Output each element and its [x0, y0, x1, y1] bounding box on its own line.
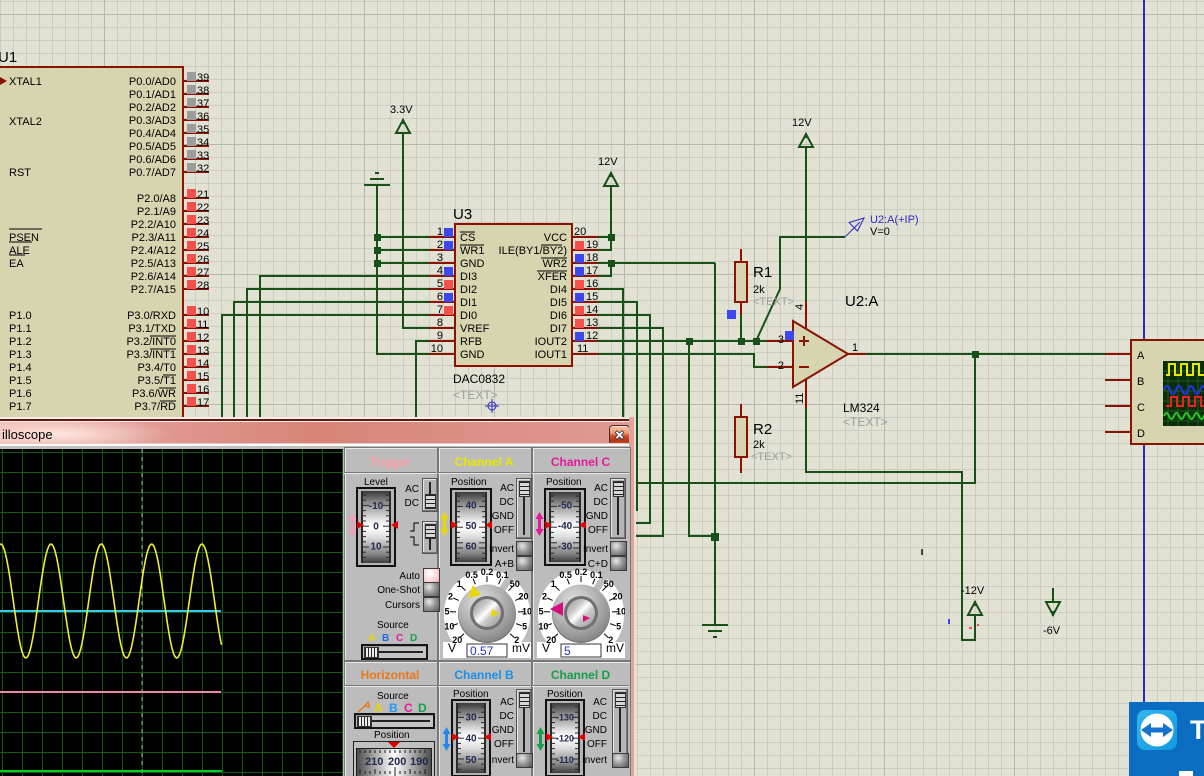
svg-text:21: 21 — [197, 189, 209, 201]
svg-text:12V: 12V — [598, 156, 618, 168]
svg-text:U2:A(+IP): U2:A(+IP) — [870, 214, 919, 226]
resistor R2 — [735, 404, 747, 473]
R1 pin state square — [727, 310, 736, 319]
svg-text:GND: GND — [460, 349, 485, 361]
svg-text:0.2: 0.2 — [481, 568, 494, 577]
svg-text:DI2: DI2 — [460, 284, 477, 296]
svg-text:P1.4: P1.4 — [9, 362, 32, 374]
junction VCC — [608, 234, 615, 241]
svg-text:ILE(BY1/BY2): ILE(BY1/BY2) — [499, 245, 567, 257]
svg-text:11: 11 — [197, 319, 208, 331]
svg-text:18: 18 — [586, 252, 598, 264]
svg-text:VCC: VCC — [544, 232, 567, 244]
wire 12V to VCC/ILE — [598, 186, 611, 250]
svg-text:P2.1/A9: P2.1/A9 — [137, 206, 176, 218]
power 12V (op-amp) — [799, 133, 813, 147]
svg-text:U2:A: U2:A — [845, 293, 878, 310]
overline EA — [9, 254, 25, 256]
junction CS — [374, 234, 381, 241]
stray mark tick — [921, 549, 923, 555]
svg-text:50: 50 — [510, 579, 520, 589]
overline RD — [160, 400, 176, 402]
channel D trace (green) — [0, 770, 222, 772]
svg-text:P3.2/INT0: P3.2/INT0 — [126, 336, 176, 348]
trigger dashed cursor — [141, 449, 143, 776]
svg-text:DI4: DI4 — [550, 284, 567, 296]
titlebar bottom line — [0, 443, 629, 444]
svg-text:U3: U3 — [453, 206, 472, 223]
svg-text:4: 4 — [437, 265, 443, 277]
svg-text:2: 2 — [778, 360, 784, 372]
overline BY2 — [541, 244, 562, 246]
svg-text:P2.3/A11: P2.3/A11 — [132, 232, 176, 244]
wire opamp output feedback down-left — [633, 354, 975, 483]
svg-text:2: 2 — [437, 239, 443, 251]
wire P3 bus DI0 vertical — [222, 315, 429, 422]
svg-text:mV: mV — [512, 641, 530, 655]
svg-text:14: 14 — [586, 304, 598, 316]
junction GND3 — [374, 260, 381, 267]
junction probe — [753, 338, 760, 345]
svg-text:5: 5 — [564, 644, 571, 658]
svg-text:23: 23 — [197, 215, 209, 227]
op-amp minus sign — [799, 366, 809, 368]
origin marker — [485, 399, 499, 413]
panel area — [343, 446, 631, 776]
svg-text:WR2: WR2 — [543, 258, 567, 270]
svg-text:DI3: DI3 — [460, 271, 477, 283]
svg-text:P2.5/A13: P2.5/A13 — [131, 258, 176, 270]
U1 clock arrow XTAL1 — [0, 77, 7, 85]
close button — [609, 425, 630, 445]
wire ground to CS/WR1/GND — [377, 186, 429, 354]
mini trace red square — [1166, 397, 1204, 406]
svg-text:P3.0/RXD: P3.0/RXD — [127, 310, 176, 322]
svg-text:10: 10 — [431, 343, 443, 355]
svg-text:P2.7/A15: P2.7/A15 — [131, 284, 176, 296]
svg-text:9: 9 — [437, 330, 443, 342]
svg-text:15: 15 — [197, 371, 209, 383]
svg-text:LM324: LM324 — [843, 401, 880, 415]
U3 left pin names — [460, 232, 490, 361]
svg-text:P1.0: P1.0 — [9, 310, 32, 322]
svg-text:GND: GND — [460, 258, 485, 270]
svg-text:DI6: DI6 — [550, 310, 567, 322]
stray mark red1 — [969, 627, 972, 629]
svg-text:XTAL1: XTAL1 — [9, 76, 42, 88]
svg-text:10: 10 — [522, 607, 531, 617]
svg-text:P2.4/A12: P2.4/A12 — [131, 245, 176, 257]
svg-text:P0.6/AD6: P0.6/AD6 — [129, 154, 176, 166]
U3 right pin numbers — [574, 226, 598, 355]
svg-text:3: 3 — [437, 252, 443, 264]
svg-text:P0.4/AD4: P0.4/AD4 — [129, 128, 176, 140]
svg-text:mV: mV — [606, 641, 624, 655]
junction IOUT2-gnd — [686, 338, 693, 345]
svg-text:190: 190 — [410, 756, 428, 768]
svg-text:16: 16 — [197, 384, 209, 396]
svg-text:28: 28 — [197, 280, 209, 292]
wire opamp output to scope A — [866, 353, 1105, 355]
svg-text:12: 12 — [197, 332, 209, 344]
overline WR — [159, 387, 176, 389]
svg-text:RST: RST — [9, 167, 31, 179]
svg-text:P2.2/A10: P2.2/A10 — [131, 219, 176, 231]
svg-text:10: 10 — [370, 542, 382, 553]
wire WR1 pin2 — [377, 249, 429, 251]
svg-text:IOUT2: IOUT2 — [535, 336, 567, 348]
svg-text:0.2: 0.2 — [575, 568, 588, 577]
U1 pin state squares P0 (gray) — [187, 72, 196, 172]
svg-text:DI7: DI7 — [550, 323, 567, 335]
svg-text:P0.7/AD7: P0.7/AD7 — [129, 167, 176, 179]
scope pin stubs A-D — [1105, 354, 1131, 432]
svg-text:0.1: 0.1 — [496, 570, 509, 580]
wire probe diagonal — [756, 237, 845, 341]
chip U1 body — [0, 67, 183, 427]
section frames — [344, 447, 438, 661]
svg-text:VREF: VREF — [460, 323, 490, 335]
svg-text:P2.6/A14: P2.6/A14 — [131, 271, 176, 283]
svg-text:<TEXT>: <TEXT> — [453, 388, 498, 402]
svg-text:16: 16 — [586, 278, 598, 290]
svg-text:4: 4 — [794, 304, 806, 310]
wire IOUT1 to opamp inverting — [598, 354, 767, 367]
chip U3 body — [455, 224, 572, 366]
svg-text:38: 38 — [197, 85, 209, 97]
svg-text:8: 8 — [437, 317, 443, 329]
svg-text:P3.5/T1: P3.5/T1 — [137, 375, 176, 387]
svg-text:P3.4/T0: P3.4/T0 — [137, 362, 176, 374]
overline INT0 — [150, 335, 176, 337]
svg-text:11: 11 — [794, 393, 806, 404]
U3 left pin numbers — [431, 226, 443, 355]
svg-text:2: 2 — [448, 592, 453, 602]
U3 pin state squares — [444, 228, 584, 341]
channel A trace (yellow sine) — [0, 544, 222, 658]
svg-text:P1.7: P1.7 — [9, 401, 32, 413]
svg-text:5: 5 — [522, 622, 527, 632]
wire P3 bus DI1 vertical — [234, 302, 429, 422]
svg-text:<TEXT>: <TEXT> — [753, 296, 794, 308]
junction WR2 — [608, 260, 615, 267]
svg-text:17: 17 — [197, 397, 209, 409]
svg-text:22: 22 — [197, 202, 209, 214]
svg-text:<TEXT>: <TEXT> — [751, 451, 792, 463]
svg-text:17: 17 — [586, 265, 598, 277]
svg-text:32: 32 — [197, 163, 209, 175]
overline T1 — [163, 374, 176, 376]
window top glow — [0, 417, 636, 419]
svg-text:27: 27 — [197, 267, 209, 279]
U1 pin state squares P2,P3 (red) — [187, 189, 196, 406]
svg-text:R2: R2 — [753, 421, 772, 438]
svg-text:P1.5: P1.5 — [9, 375, 32, 387]
U1 pin numbers — [197, 72, 209, 409]
junction output — [972, 351, 979, 358]
svg-text:5: 5 — [444, 607, 449, 617]
mini trace green sine — [1164, 413, 1204, 419]
svg-text:DI0: DI0 — [460, 310, 477, 322]
knob C — [537, 568, 625, 658]
svg-text:3.3V: 3.3V — [390, 104, 413, 116]
junction WR1 — [374, 247, 381, 254]
wire DI7 staircase — [598, 328, 663, 536]
wire DI5 staircase — [598, 302, 637, 510]
svg-text:20: 20 — [574, 226, 586, 238]
op-amp plus sign — [799, 336, 809, 367]
svg-text:2k: 2k — [753, 439, 765, 451]
svg-text:P0.0/AD0: P0.0/AD0 — [129, 76, 176, 88]
svg-text:-12V: -12V — [961, 585, 985, 597]
scope component body — [1131, 340, 1204, 444]
svg-text:15: 15 — [586, 291, 598, 303]
stray mark red2 — [977, 624, 979, 626]
svg-text:37: 37 — [197, 98, 209, 110]
svg-text:10: 10 — [197, 306, 209, 318]
svg-text:10: 10 — [616, 607, 625, 617]
knob A — [443, 568, 531, 658]
power 12V (U3) — [604, 172, 618, 186]
svg-text:V: V — [542, 641, 550, 655]
svg-text:1: 1 — [852, 342, 858, 354]
svg-text:B: B — [1137, 376, 1144, 388]
svg-text:14: 14 — [197, 358, 209, 370]
svg-text:5: 5 — [616, 622, 621, 632]
svg-text:P3.6/WR: P3.6/WR — [132, 388, 176, 400]
svg-text:A: A — [1137, 350, 1145, 362]
svg-text:1: 1 — [551, 579, 556, 589]
svg-text:1: 1 — [437, 226, 443, 238]
svg-text:P3.3/INT1: P3.3/INT1 — [126, 349, 176, 361]
channel B trace (cyan) — [0, 610, 221, 612]
wire XFER link — [598, 263, 611, 276]
probe U2:A(+IP) — [845, 218, 864, 237]
stray mark blue — [948, 619, 950, 624]
svg-text:25: 25 — [197, 241, 209, 253]
op-amp pin stubs — [767, 301, 866, 408]
overline PSEN — [9, 228, 42, 230]
wire opamp V- to -12V — [806, 408, 975, 640]
wire WR2/XFER to ground vertical — [714, 263, 716, 625]
svg-text:P1.1: P1.1 — [9, 323, 32, 335]
svg-text:C: C — [1137, 402, 1145, 414]
wire ground link from IOUT2 net — [689, 341, 715, 536]
op-amp U2:A body — [793, 321, 848, 387]
svg-text:1: 1 — [457, 579, 462, 589]
svg-text:2: 2 — [542, 592, 547, 602]
mini trace blue sine — [1164, 386, 1204, 394]
U3 left pin stubs — [429, 237, 455, 354]
scope black screen — [0, 449, 343, 776]
svg-text:13: 13 — [586, 317, 598, 329]
svg-text:P0.5/AD5: P0.5/AD5 — [129, 141, 176, 153]
svg-text:33: 33 — [197, 150, 209, 162]
svg-text:P1.6: P1.6 — [9, 388, 32, 400]
svg-text:U1: U1 — [0, 49, 17, 66]
svg-text:7: 7 — [437, 304, 443, 316]
svg-text:RFB: RFB — [460, 336, 482, 348]
scope mini screen — [1163, 361, 1204, 426]
svg-text:V: V — [448, 641, 456, 655]
svg-text:P0.2/AD2: P0.2/AD2 — [129, 102, 176, 114]
wire GND pin3 — [377, 262, 429, 264]
svg-text:10: 10 — [444, 622, 454, 632]
wire R1 bottom to net — [740, 315, 742, 341]
svg-text:DI5: DI5 — [550, 297, 567, 309]
overline ALE — [9, 241, 32, 243]
title bar — [0, 422, 629, 443]
svg-text:0.5: 0.5 — [465, 570, 478, 580]
op-amp pin3 state square — [785, 331, 794, 340]
svg-text:20: 20 — [612, 592, 622, 602]
overline WR2 — [541, 257, 567, 259]
svg-text:5: 5 — [538, 607, 543, 617]
svg-text:24: 24 — [197, 228, 209, 240]
wire P3 bus DI3 vertical — [260, 276, 429, 422]
svg-text:210: 210 — [365, 756, 383, 768]
power -6V (floating) — [1046, 588, 1060, 616]
svg-text:35: 35 — [197, 124, 209, 136]
svg-text:2k: 2k — [753, 284, 765, 296]
sheet border blue line — [1143, 0, 1145, 776]
teamviewer icon — [1137, 710, 1177, 750]
svg-text:EA: EA — [9, 258, 24, 270]
junction gnd2 — [711, 533, 719, 541]
svg-text:0.57: 0.57 — [470, 644, 494, 658]
svg-text:P2.0/A8: P2.0/A8 — [137, 193, 176, 205]
wire DI4 staircase — [598, 289, 623, 422]
svg-text:13: 13 — [197, 345, 209, 357]
ground symbol (bottom) — [702, 625, 728, 637]
svg-text:0: 0 — [373, 522, 379, 533]
svg-text:10: 10 — [538, 622, 548, 632]
wire WR2 net horizontal — [598, 262, 715, 264]
svg-text:DI1: DI1 — [460, 297, 477, 309]
svg-text:50: 50 — [604, 579, 614, 589]
svg-text:P0.1/AD1: P0.1/AD1 — [129, 89, 176, 101]
svg-text:IOUT1: IOUT1 — [535, 349, 567, 361]
svg-text:0.5: 0.5 — [559, 570, 572, 580]
U3 right pin names — [499, 232, 568, 361]
power 3.3V — [396, 119, 410, 133]
power -12V — [968, 601, 982, 615]
svg-text:3: 3 — [778, 334, 784, 346]
mini trace yellow square — [1166, 364, 1204, 375]
svg-text:XTAL2: XTAL2 — [9, 116, 42, 128]
svg-text:R1: R1 — [753, 264, 772, 281]
wire DI6 staircase — [598, 315, 650, 523]
wire 12V to opamp V+ — [805, 147, 807, 301]
ground symbol (inverted, near U3) — [364, 173, 390, 185]
U3 right pin stubs — [572, 237, 598, 354]
svg-text:XFER: XFER — [538, 271, 567, 283]
svg-text:0.1: 0.1 — [590, 570, 603, 580]
U1 right pin stubs — [183, 81, 209, 406]
svg-text:11: 11 — [577, 343, 588, 355]
svg-text:DAC0832: DAC0832 — [453, 372, 505, 386]
svg-text:P1.2: P1.2 — [9, 336, 32, 348]
svg-text:WR1: WR1 — [460, 245, 484, 257]
header divider lines — [344, 472, 436, 473]
svg-text:CS: CS — [460, 232, 475, 244]
junction dots — [374, 234, 979, 541]
overline WR1 — [460, 244, 484, 246]
screen grid — [0, 449, 343, 776]
window top border — [0, 419, 636, 421]
wire IOUT2 to opamp noninverting — [598, 340, 767, 342]
channel C trace (pink) — [0, 691, 221, 693]
junction R1 — [738, 338, 745, 345]
svg-text:V=0: V=0 — [870, 226, 890, 238]
svg-text:36: 36 — [197, 111, 209, 123]
svg-text:34: 34 — [197, 137, 209, 149]
wire RFB down — [416, 341, 429, 422]
svg-text:19: 19 — [586, 239, 598, 251]
svg-text:D: D — [1137, 428, 1145, 440]
overline INT1 — [150, 348, 176, 350]
svg-text:12: 12 — [586, 330, 598, 342]
svg-text:-10: -10 — [369, 501, 384, 512]
overline XFER — [537, 270, 567, 272]
wire VCC pin20 — [598, 236, 611, 238]
svg-text:-6V: -6V — [1043, 625, 1061, 637]
svg-text:200: 200 — [388, 756, 406, 768]
svg-text:<TEXT>: <TEXT> — [843, 415, 888, 429]
resistor R1 — [735, 249, 747, 315]
right window frame — [629, 417, 636, 776]
svg-text:20: 20 — [518, 592, 528, 602]
wire P3 bus DI2 vertical — [247, 289, 429, 422]
wire 3.3V to VREF — [403, 133, 429, 328]
svg-text:P3.1/TXD: P3.1/TXD — [128, 323, 176, 335]
svg-text:39: 39 — [197, 72, 209, 84]
svg-text:5: 5 — [437, 278, 443, 290]
svg-text:P1.3: P1.3 — [9, 349, 32, 361]
wire CS pin1 — [377, 236, 429, 238]
svg-text:12V: 12V — [792, 117, 812, 129]
overline CS — [460, 231, 475, 233]
svg-text:P3.7/RD: P3.7/RD — [134, 401, 176, 413]
svg-text:P0.3/AD3: P0.3/AD3 — [129, 115, 176, 127]
svg-text:26: 26 — [197, 254, 209, 266]
svg-text:6: 6 — [437, 291, 443, 303]
